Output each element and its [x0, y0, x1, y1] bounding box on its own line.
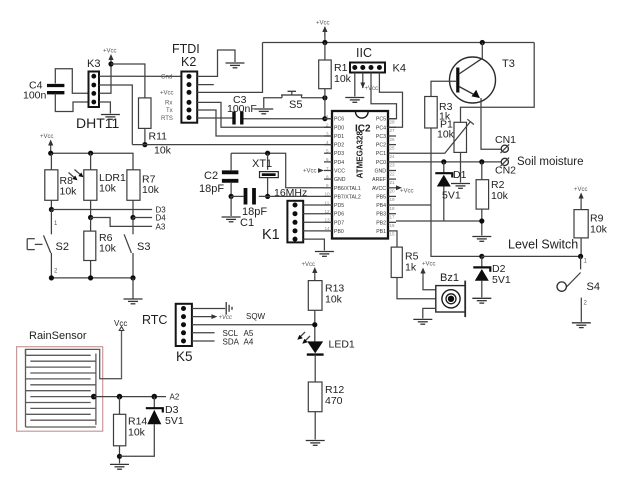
svg-text:D4: D4: [156, 214, 167, 223]
svg-text:A3: A3: [156, 223, 166, 232]
svg-text:SQW: SQW: [246, 312, 266, 321]
svg-text:Vcc: Vcc: [114, 319, 127, 328]
wire T3 emitter down to CN1: [481, 98, 501, 149]
svg-text:K5: K5: [176, 349, 193, 364]
wire K5 pin3 SQW to R13/LED node: [192, 324, 315, 326]
wire R12 to ground: [314, 412, 316, 440]
svg-text:5V1: 5V1: [165, 415, 184, 427]
wire K5 pin4 SCL stub: [192, 332, 215, 334]
ground D2: [472, 298, 491, 303]
svg-text:5V1: 5V1: [492, 274, 511, 286]
wire P1 bottom to ground: [460, 152, 462, 182]
svg-text:Level Switch: Level Switch: [508, 238, 578, 252]
power +Vcc at IC VCC pin: [303, 168, 324, 174]
wire PC0 soil node line: [396, 161, 501, 163]
photoresistor LDR1: [84, 153, 126, 200]
wire K1 pin1 to PD5: [303, 204, 324, 206]
svg-text:IIC: IIC: [356, 46, 372, 60]
svg-text:AVCC: AVCC: [372, 186, 386, 192]
wire K2 pin5 Tx to IC PD1: [197, 110, 332, 136]
node D3 top: [152, 394, 158, 400]
wire C4 bottom to K3 pin4: [55, 94, 88, 112]
resistor R13: [308, 281, 344, 311]
wire R7 bottom: [132, 200, 134, 217]
svg-text:10k: 10k: [437, 129, 455, 141]
svg-text:CN1: CN1: [495, 134, 516, 146]
wire S5 left to ground: [264, 98, 282, 108]
connector CN2: [495, 158, 516, 177]
svg-text:PB6/XTAL1: PB6/XTAL1: [334, 186, 361, 192]
svg-text:10k: 10k: [590, 224, 608, 236]
svg-text:S3: S3: [137, 241, 150, 253]
switch S5: [281, 91, 303, 111]
power Vcc at rain sensor: [114, 319, 127, 331]
node rain sensor output: [91, 394, 97, 400]
wire K5 pin5 SDA stub: [192, 340, 215, 342]
ground sensor rail: [124, 299, 143, 304]
svg-text:S2: S2: [56, 241, 69, 253]
svg-text:16MHz: 16MHz: [274, 187, 307, 199]
IC2 left pin stubs and names: [324, 114, 361, 235]
wire R8 bottom to D3 net: [50, 200, 52, 209]
wire K1 pin2 to PD6: [303, 213, 324, 215]
svg-text:+Vcc: +Vcc: [219, 315, 233, 321]
node rail R8: [48, 151, 53, 156]
svg-text:PD1: PD1: [334, 134, 344, 140]
node crystal bottom: [265, 194, 270, 199]
svg-text:+Vcc: +Vcc: [400, 189, 414, 195]
svg-text:12: 12: [325, 209, 331, 214]
IC2 right pin stubs and names: [372, 117, 396, 237]
svg-text:R11: R11: [149, 131, 168, 143]
svg-text:100nF: 100nF: [227, 103, 257, 115]
wire K1 pin3 to PD7: [303, 221, 324, 223]
svg-text:LED1: LED1: [329, 339, 355, 351]
wire rail to ground: [132, 278, 134, 299]
node R14 top: [117, 394, 123, 400]
ground DHT11: [101, 115, 120, 120]
switch S3: [124, 218, 150, 278]
connector K1: [262, 201, 303, 243]
svg-text:K3: K3: [87, 58, 100, 70]
power +Vcc above R1: [316, 21, 330, 37]
svg-text:6: 6: [326, 157, 329, 162]
wire R14 bottom to ground: [119, 446, 121, 464]
switch S4: [557, 256, 600, 321]
svg-text:10: 10: [325, 192, 331, 197]
svg-text:19: 19: [390, 197, 396, 202]
wire K1 pin4 to PB0: [303, 230, 324, 232]
wire PC1 to P1 wiper: [396, 152, 445, 154]
svg-text:21: 21: [390, 180, 396, 185]
power +Vcc at K5 pin2: [192, 314, 232, 321]
svg-text:8: 8: [326, 174, 329, 179]
node reset/PC6: [322, 116, 327, 121]
svg-text:27: 27: [390, 128, 396, 133]
ground K4: [345, 98, 364, 103]
svg-text:+Vcc: +Vcc: [422, 262, 436, 268]
node R2 top on soil line: [479, 159, 484, 164]
capacitor C1: [231, 188, 267, 229]
svg-text:PC6: PC6: [334, 117, 344, 123]
svg-text:K2: K2: [181, 55, 196, 69]
wire net D4: [133, 217, 152, 219]
node T3 collector on Vcc rail: [480, 40, 485, 45]
svg-text:+Vcc: +Vcc: [160, 91, 174, 97]
rain sensor outline box: [17, 347, 103, 432]
svg-text:CN2: CN2: [495, 165, 516, 177]
svg-text:PB3: PB3: [376, 212, 386, 218]
rain sensor electrode grid: [26, 331, 122, 428]
svg-text:PD3: PD3: [334, 151, 344, 157]
svg-text:10k: 10k: [154, 145, 172, 157]
svg-text:SDA: SDA: [223, 338, 240, 347]
wire K2 pin6 RTS to C3: [197, 117, 232, 119]
svg-text:11: 11: [325, 200, 330, 205]
connector K3: [87, 58, 100, 107]
svg-text:K4: K4: [393, 63, 406, 75]
node R14/D3 bottom: [117, 454, 122, 459]
ground K1: [315, 252, 334, 257]
node S3 bottom: [130, 275, 135, 280]
svg-text:PB0: PB0: [334, 229, 344, 235]
wire K2 pin3 Vcc riser: [197, 43, 262, 93]
svg-text:Bz1: Bz1: [440, 272, 459, 284]
resistor R7: [127, 170, 160, 201]
wire PB4 to R3 vertical: [396, 204, 431, 206]
wire top Vcc rail: [263, 42, 535, 44]
wire R11 bottom to PD2: [144, 128, 146, 144]
wire K3 pin2 data down to PD2 line: [99, 85, 132, 145]
wire K2 pin4 Rx to IC PD0: [197, 102, 332, 127]
svg-text:5: 5: [326, 149, 329, 154]
svg-text:17: 17: [390, 215, 396, 220]
svg-text:10k: 10k: [325, 294, 343, 306]
ground crystal: [222, 217, 241, 222]
wire C4 top to K3 pin3: [55, 69, 88, 94]
wire K2 pin2 stub: [197, 84, 214, 86]
diode D1 zener 5V1: [435, 162, 466, 221]
svg-text:10k: 10k: [99, 183, 117, 195]
svg-text:10k: 10k: [60, 186, 78, 198]
wire PB1 to R5: [396, 231, 397, 247]
crystal XT1: [252, 153, 278, 196]
connector CN1: [495, 134, 516, 153]
ground R2: [472, 237, 491, 242]
svg-text:+Vcc: +Vcc: [316, 21, 330, 27]
svg-text:+Vcc: +Vcc: [303, 169, 317, 175]
svg-text:18pF: 18pF: [199, 183, 224, 195]
wire K3 pin1 to K2 pin1 (Gnd net): [99, 75, 181, 77]
wire Vcc stem: [50, 150, 52, 154]
svg-text:20: 20: [390, 189, 396, 194]
node crystal top: [265, 151, 270, 156]
svg-text:+Vcc: +Vcc: [103, 49, 117, 55]
svg-text:A2: A2: [170, 393, 180, 402]
wire XTAL2 rail: [259, 195, 324, 197]
resistor R8: [45, 153, 84, 200]
wire K4 pin1 to ground: [354, 73, 356, 97]
svg-text:VCC: VCC: [334, 169, 345, 175]
svg-text:25: 25: [390, 145, 396, 150]
wire K3 pin4 to ground: [99, 102, 110, 114]
wire Vcc node to K3 pin3: [99, 64, 111, 93]
wire LDR1 bottom: [90, 200, 92, 217]
svg-text:PC2: PC2: [376, 143, 386, 149]
svg-text:ATMEGA328: ATMEGA328: [356, 131, 365, 179]
ground S4: [572, 323, 591, 328]
op-amp:none; IC U-ATMEGA328: chip IC2: [332, 111, 388, 239]
wire sensors bottom rail: [51, 277, 133, 279]
power +Vcc at K4 pin2: [360, 73, 378, 93]
svg-text:PB4: PB4: [376, 203, 386, 209]
power +Vcc at LDR rail: [40, 134, 54, 150]
wire K4 pin4 to IC PC4: [379, 73, 402, 128]
svg-text:470: 470: [325, 395, 343, 407]
node R8/S2/D3: [49, 207, 54, 212]
svg-text:PD0: PD0: [334, 125, 344, 131]
transistor T3: [450, 57, 515, 103]
wire Vcc node to R11 top: [111, 64, 145, 98]
wire crystal top node to XTAL1: [231, 153, 324, 188]
svg-text:PC1: PC1: [376, 151, 386, 157]
power +Vcc at buzzer: [420, 262, 435, 278]
node R7/S3: [130, 215, 135, 220]
svg-text:RainSensor: RainSensor: [29, 330, 87, 342]
svg-text:A4: A4: [244, 338, 254, 347]
svg-text:14: 14: [325, 226, 331, 231]
svg-text:PC5: PC5: [376, 117, 386, 123]
svg-text:10k: 10k: [334, 73, 352, 85]
wire level switch line to R9/S4: [482, 255, 581, 257]
wire LDR Vcc rail: [51, 153, 133, 170]
potentiometer P1: [437, 119, 474, 154]
wire R1 top lead: [324, 43, 326, 61]
ground P1: [451, 184, 470, 189]
wire R3 bottom long vertical to level switch line: [431, 128, 482, 256]
svg-text:18: 18: [390, 206, 396, 211]
svg-text:Gnd: Gnd: [161, 75, 172, 81]
svg-text:PD4: PD4: [334, 160, 344, 166]
svg-text:+Vcc: +Vcc: [302, 262, 316, 268]
wire S5 right to reset node: [302, 97, 325, 99]
wire Vcc to R9 top: [580, 203, 582, 210]
svg-text:PD5: PD5: [334, 203, 344, 209]
connector K2 FTDI: [160, 42, 200, 123]
svg-text:4: 4: [326, 140, 329, 145]
wire Vcc to buzzer top pin: [423, 278, 436, 290]
node Vcc-DHT: [108, 61, 113, 66]
diode D2 zener 5V1: [473, 256, 511, 297]
svg-text:XT1: XT1: [252, 158, 272, 170]
wire T3 base to R3: [431, 81, 456, 96]
ground FTDI: [226, 63, 245, 68]
svg-text:10k: 10k: [142, 184, 160, 196]
resistor R3: [425, 97, 453, 129]
wire LED to R12: [314, 355, 316, 382]
resistor R9: [574, 210, 608, 238]
diode D3 zener 5V1: [120, 397, 184, 457]
svg-text:Rx: Rx: [165, 101, 172, 107]
svg-text:S5: S5: [289, 99, 302, 111]
svg-text:Tx: Tx: [166, 108, 173, 114]
resistor R12: [308, 382, 344, 412]
svg-text:10k: 10k: [99, 243, 117, 255]
wire data line to IC PD2: [132, 144, 332, 146]
svg-text:22: 22: [390, 171, 396, 176]
wire C3 to IC PC6 reset line: [244, 118, 333, 120]
switch S2: [27, 210, 69, 278]
wire Vcc stem to rail: [324, 31, 326, 43]
power +Vcc at R13: [302, 262, 318, 277]
ground R12: [306, 441, 325, 446]
svg-text:GND: GND: [374, 169, 386, 175]
svg-text:D1: D1: [453, 169, 467, 181]
wire R13 bottom to LED: [314, 310, 316, 341]
svg-text:1k: 1k: [405, 262, 417, 274]
svg-text:K1: K1: [262, 227, 280, 243]
svg-text:15: 15: [390, 232, 396, 237]
ground S5: [254, 109, 273, 114]
LED LED1: [297, 332, 355, 355]
ground Bz1: [413, 319, 432, 324]
power +Vcc at IC AVCC pin: [396, 185, 414, 194]
svg-text:23: 23: [390, 163, 396, 168]
svg-text:100n: 100n: [23, 90, 47, 102]
resistor R1: [319, 60, 352, 89]
resistor R6: [84, 218, 117, 278]
svg-text:PC0: PC0: [376, 160, 386, 166]
svg-text:2: 2: [326, 123, 329, 128]
node C2/C1 ground junction: [229, 194, 234, 199]
svg-text:9: 9: [326, 183, 329, 188]
svg-text:GND: GND: [334, 177, 346, 183]
node S2 bottom: [49, 275, 54, 280]
node R9/S4/level: [578, 254, 583, 259]
svg-text:T3: T3: [502, 58, 515, 70]
wire K5 pin1 to sideways ground: [192, 308, 225, 310]
svg-text:PD6: PD6: [334, 212, 344, 218]
capacitor C2: [199, 153, 238, 196]
capacitor C3: [227, 94, 257, 125]
node D1 top: [441, 159, 446, 164]
svg-text:3: 3: [326, 131, 329, 136]
svg-text:AREF: AREF: [372, 177, 386, 183]
svg-text:PC4: PC4: [376, 125, 386, 131]
svg-text:C2: C2: [204, 170, 218, 182]
power +Vcc at R9: [574, 187, 588, 203]
svg-text:PC3: PC3: [376, 134, 386, 140]
wire K2 pin1 to ground: [197, 50, 235, 76]
svg-text:C1: C1: [240, 217, 254, 229]
svg-text:RTS: RTS: [161, 116, 173, 122]
resistor R2: [476, 179, 509, 209]
resistor R11: [139, 98, 172, 157]
wire K4 pin3 to IC PC5: [371, 73, 397, 119]
resistor R14: [114, 414, 148, 446]
wire collector: [481, 43, 483, 59]
wire R14 top lead: [119, 397, 121, 415]
svg-text:Soil moisture: Soil moisture: [517, 156, 583, 168]
svg-text:PB5: PB5: [376, 194, 386, 200]
node SQW junction: [312, 322, 317, 327]
power +Vcc at K3: [103, 49, 117, 65]
svg-text:5V1: 5V1: [442, 190, 461, 202]
connector K4 IIC: [350, 46, 406, 75]
node R1 top: [322, 40, 327, 45]
wire collector loop to P1 top: [461, 43, 535, 123]
svg-text:28: 28: [390, 120, 396, 125]
node R6 bottom: [88, 275, 93, 280]
svg-text:+Vcc: +Vcc: [40, 134, 54, 140]
svg-text:+Vcc: +Vcc: [574, 187, 588, 193]
svg-text:PB7/XTAL2: PB7/XTAL2: [334, 194, 361, 200]
wire K1 pin5 to ground: [303, 239, 324, 250]
buzzer Bz1: [436, 272, 465, 317]
svg-text:16: 16: [390, 223, 396, 228]
wire net A3 with step: [91, 218, 153, 227]
node D2 tap on level line: [479, 254, 484, 259]
svg-text:1: 1: [326, 114, 329, 119]
resistor R5: [391, 247, 418, 277]
svg-text:24: 24: [390, 154, 396, 159]
node R1 bottom: [322, 95, 327, 100]
svg-text:RTC: RTC: [142, 313, 167, 327]
wire rain sensor output net A2: [94, 396, 166, 398]
wire junction to ground: [230, 196, 232, 216]
svg-text:PD2: PD2: [334, 143, 344, 149]
node R2 bottom: [479, 218, 484, 223]
wire R9 bottom to level node: [580, 238, 582, 257]
wire R2 bottom lead: [481, 209, 483, 235]
svg-text:10k: 10k: [128, 427, 146, 439]
svg-text:13: 13: [325, 218, 331, 223]
capacitor C4: [23, 80, 64, 102]
wire R5 bottom to buzzer: [397, 278, 436, 299]
svg-text:PB1: PB1: [376, 229, 386, 235]
ground R14: [110, 464, 129, 469]
wire R2 top lead: [481, 162, 483, 180]
svg-text:S4: S4: [587, 281, 600, 293]
ground K5 sideways: [226, 302, 232, 315]
node LDR1/R6: [88, 215, 93, 220]
svg-text:26: 26: [390, 137, 396, 142]
svg-text:10k: 10k: [491, 190, 509, 202]
svg-text:PD7: PD7: [334, 220, 344, 226]
wire buzzer case to ground: [423, 308, 436, 318]
svg-text:FTDI: FTDI: [172, 42, 200, 56]
wire net D3: [51, 209, 152, 211]
node R11/data: [142, 142, 147, 147]
connector K5: [176, 304, 193, 364]
wire PB2 probe-low line to R2 bottom: [396, 220, 482, 222]
svg-text:PB2: PB2: [376, 220, 386, 226]
wire R1 bottom to PC6 line: [324, 89, 326, 119]
node rail LDR1: [88, 151, 93, 156]
wire Vcc to R13: [314, 277, 316, 281]
svg-text:7: 7: [326, 166, 329, 171]
